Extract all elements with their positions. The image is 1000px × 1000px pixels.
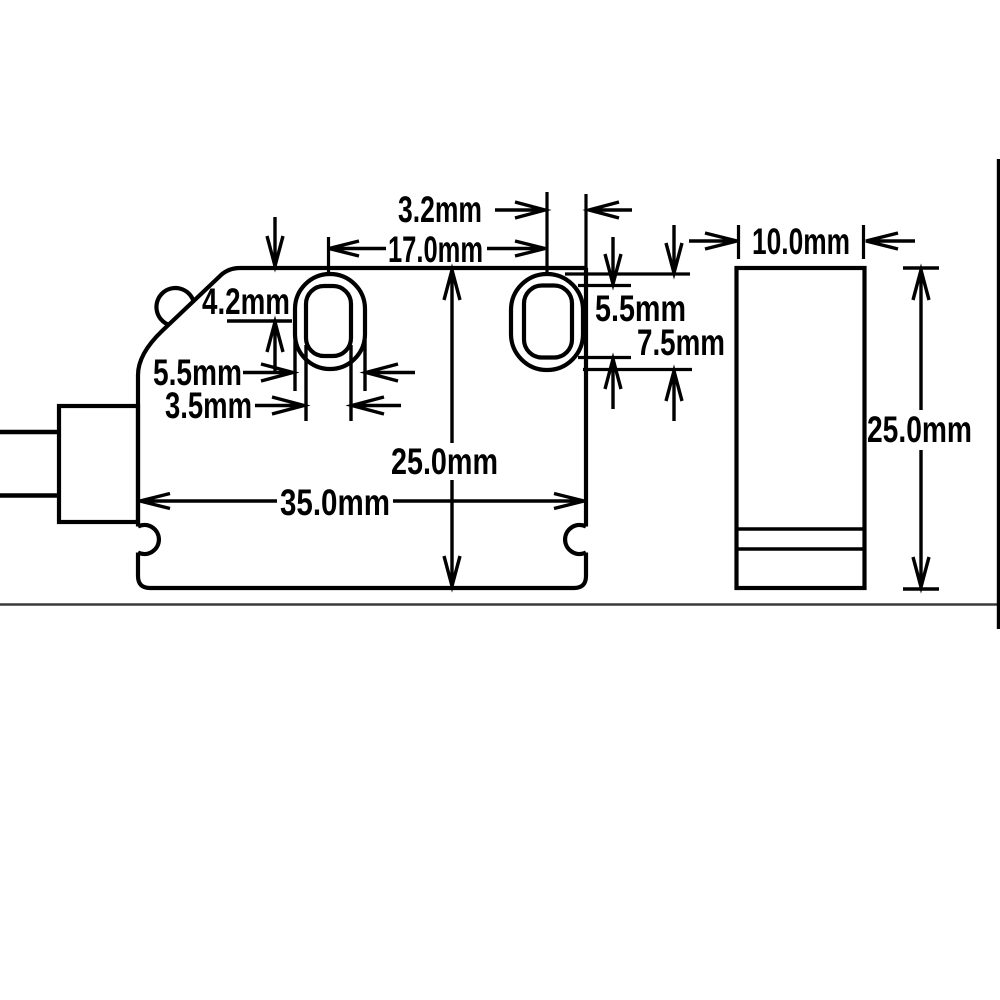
svg-text:25.0mm: 25.0mm xyxy=(867,409,972,450)
dim arrow 3.2mm right xyxy=(589,202,632,218)
extension line side view right xyxy=(862,225,865,259)
dim 25.0mm front vertical line upper xyxy=(444,270,460,443)
right edge notch xyxy=(565,525,586,554)
extension line side view left xyxy=(737,225,740,259)
dim 17.0mm right arrow xyxy=(487,241,545,256)
connector block xyxy=(59,406,138,522)
dim 35.0mm right arrow xyxy=(393,494,584,509)
svg-text:17.0mm: 17.0mm xyxy=(388,229,483,270)
svg-text:10.0mm: 10.0mm xyxy=(752,221,850,262)
svg-text:25.0mm: 25.0mm xyxy=(391,441,498,482)
down arrow right slot inner top xyxy=(605,237,621,284)
dim 17.0mm left arrow xyxy=(329,241,386,256)
left slot inner xyxy=(306,286,351,356)
dim arrow 3.5mm left pointing right xyxy=(255,397,304,414)
left slot extension lines xyxy=(295,340,365,421)
front view body outline xyxy=(138,268,586,588)
svg-text:7.5mm: 7.5mm xyxy=(637,322,725,363)
ref line right slot outer bottom xyxy=(583,368,692,371)
horizontal separator line xyxy=(0,603,1000,605)
dim 25.0mm right bottom tick xyxy=(903,587,939,590)
dim arrow 5.5mm right pointing left xyxy=(366,364,415,381)
extension line body right edge up xyxy=(584,194,587,268)
side view inner line 1 xyxy=(737,527,865,531)
ref line right slot outer top xyxy=(565,272,690,275)
extension line right slot center xyxy=(545,192,548,272)
dim 35.0mm left arrow xyxy=(140,494,277,509)
dim arrow 3.2mm left xyxy=(495,202,545,218)
ref line right slot inner top xyxy=(578,284,631,287)
right slot inner xyxy=(524,286,572,358)
svg-text:35.0mm: 35.0mm xyxy=(280,482,390,523)
dim 25.0mm front vertical line lower xyxy=(444,480,460,586)
svg-text:4.2mm: 4.2mm xyxy=(202,281,290,322)
ref line right slot inner bottom xyxy=(578,356,631,359)
dim 25.0mm right vertical upper xyxy=(913,270,929,410)
svg-text:3.5mm: 3.5mm xyxy=(165,385,252,426)
ref line 4.2mm slot center xyxy=(227,319,292,322)
up arrow at 4.2mm line xyxy=(267,322,283,373)
down arrow at top edge (4.2mm upper) xyxy=(267,217,283,266)
right edge crop line xyxy=(997,159,1000,629)
down arrow right slot outer top xyxy=(666,225,682,273)
dim arrow 5.5mm left pointing right xyxy=(243,364,293,381)
dim 10.0mm left arrow xyxy=(689,233,737,249)
wire 2 xyxy=(0,493,59,498)
left edge notch xyxy=(138,525,159,554)
right slot outer xyxy=(511,274,583,370)
dim 25.0mm right top tick xyxy=(903,266,939,269)
svg-text:3.2mm: 3.2mm xyxy=(398,189,482,230)
extension line left slot center xyxy=(327,237,330,272)
dim arrow 3.5mm right pointing left xyxy=(352,397,401,414)
bump on chamfer xyxy=(156,288,193,325)
dim 10.0mm right arrow xyxy=(866,233,915,249)
side view rectangle xyxy=(737,268,865,588)
side view inner line 2 xyxy=(737,547,865,551)
up arrow right slot outer bottom xyxy=(666,371,682,421)
dim 25.0mm right vertical lower xyxy=(913,450,929,587)
left slot outer xyxy=(295,274,365,369)
up arrow right slot inner bottom xyxy=(605,359,621,409)
wire 1 xyxy=(0,430,59,435)
